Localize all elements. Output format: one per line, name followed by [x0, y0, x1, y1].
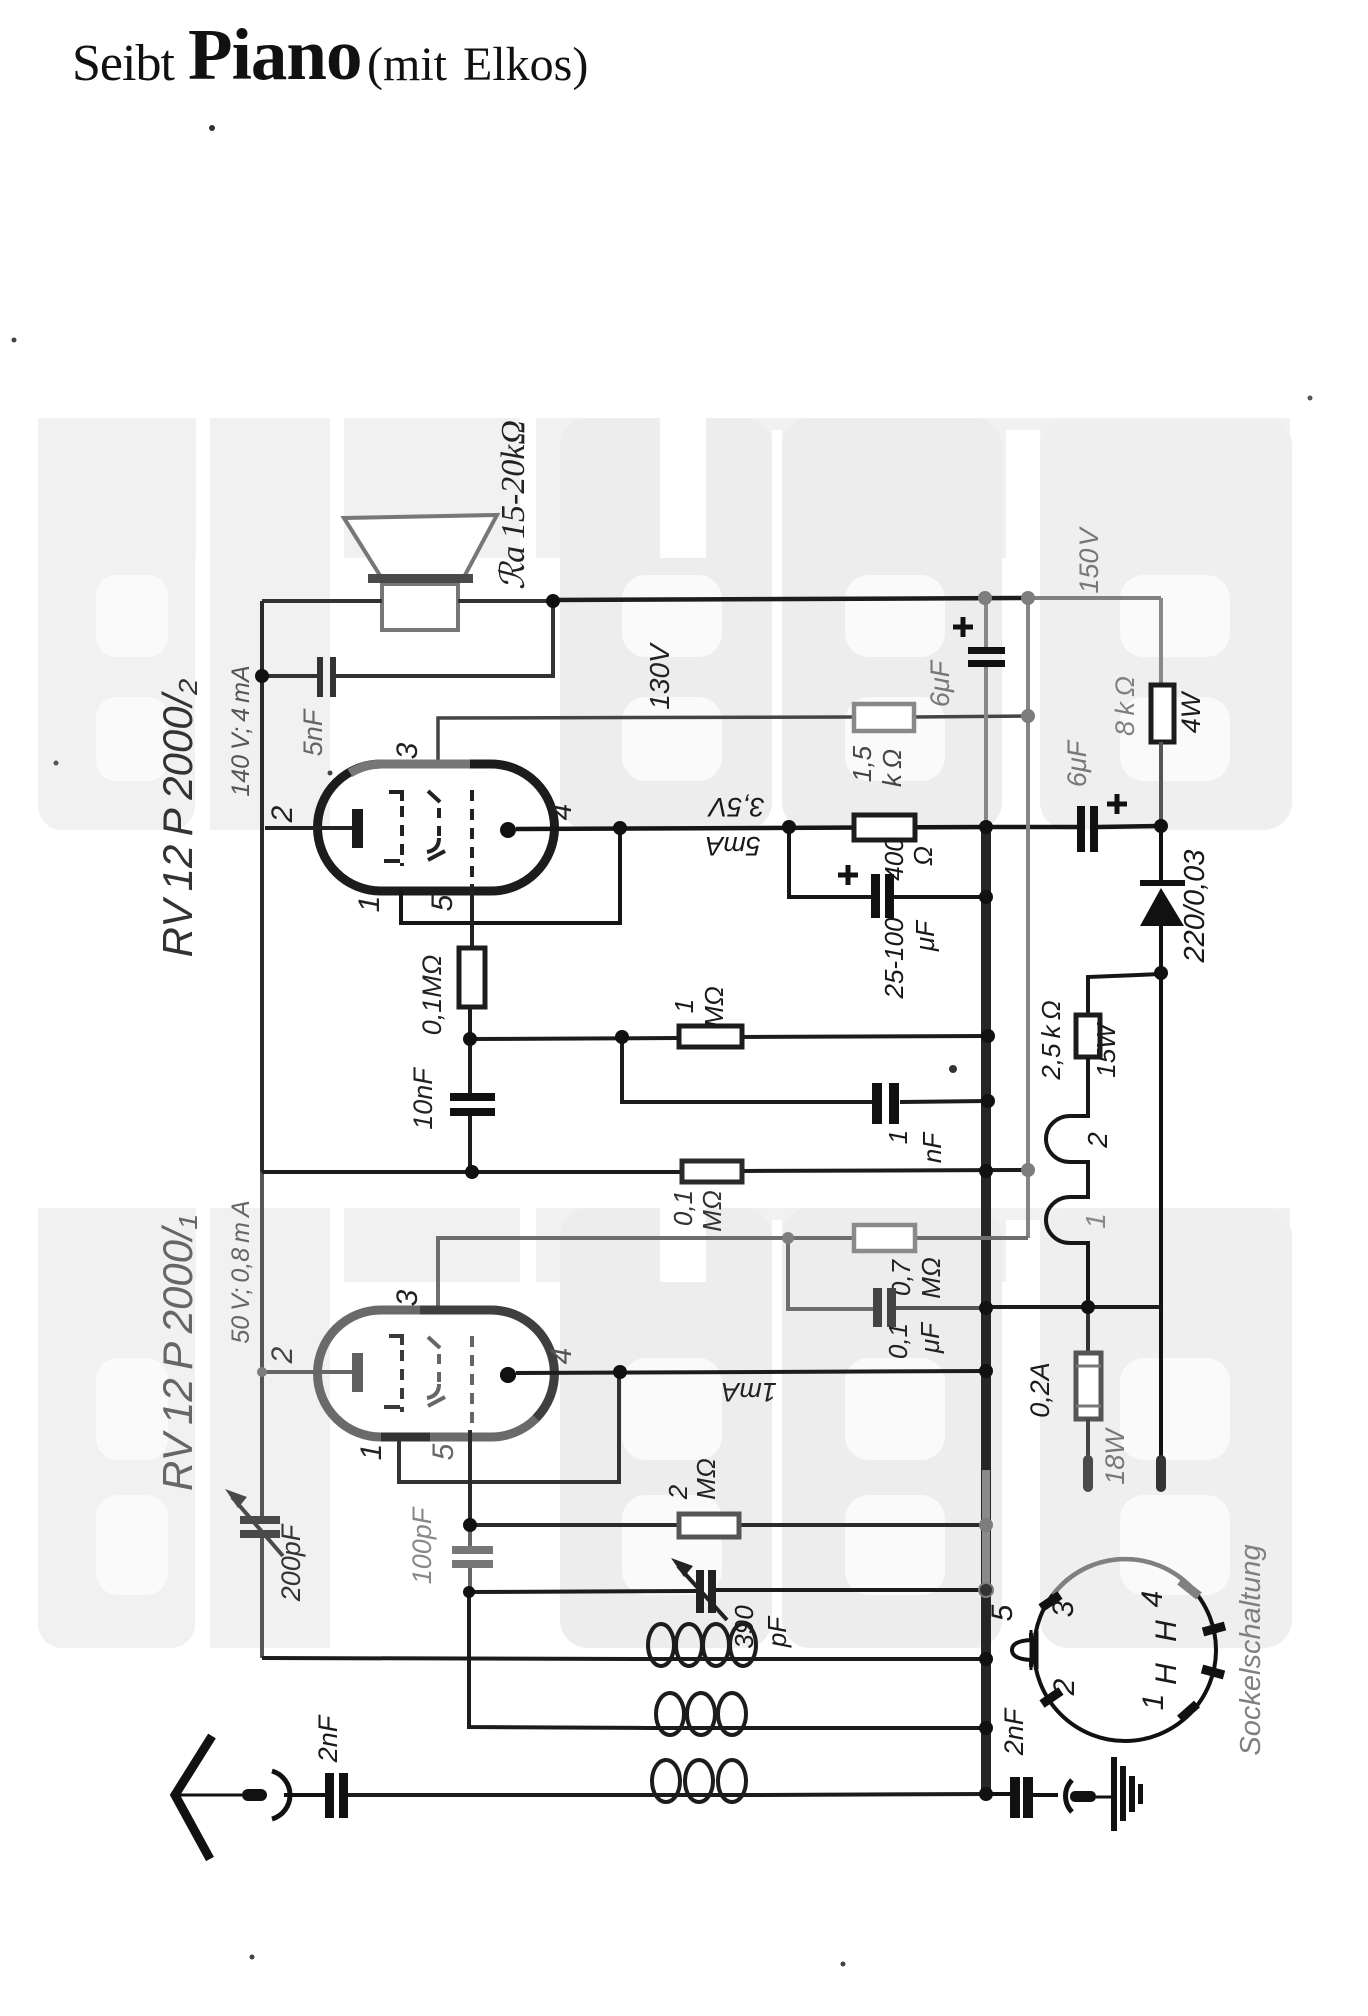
tube U1 grid3 / pin5: [470, 1336, 474, 1430]
svg-text:6μF: 6μF: [925, 659, 955, 707]
wire grid row tube2 pin3: [438, 717, 854, 762]
svg-text:8 k Ω: 8 k Ω: [1110, 676, 1140, 736]
diode 220/0,03: [1159, 826, 1163, 884]
wire anode row 3,5V: [516, 827, 986, 829]
tube U1 grid1: [389, 1336, 402, 1345]
svg-text:2: 2: [266, 1346, 299, 1364]
capacitor 200pF variable: [240, 1516, 280, 1524]
wire bus to 2nF ground: [986, 1792, 1011, 1796]
capacitor 0,1uF: [873, 1288, 882, 1327]
svg-text:5: 5: [986, 1604, 1019, 1621]
svg-text:MΩ: MΩ: [699, 986, 729, 1027]
svg-text:Sockelschaltung: Sockelschaltung: [1235, 1544, 1267, 1755]
fuse 0,2A: [1086, 1307, 1090, 1353]
tube U2 cathode: [265, 826, 352, 830]
svg-text:Piano: Piano: [188, 14, 361, 95]
wire pin1/pin5 loop tube U2: [401, 828, 620, 923]
svg-text:25-100: 25-100: [879, 917, 909, 999]
resistor 0,1MOhm (tube2 pin5): [459, 948, 485, 1007]
terminal 18W right: [1156, 1455, 1166, 1492]
svg-text:H: H: [1150, 1620, 1183, 1642]
svg-text:μF: μF: [910, 919, 940, 952]
svg-text:4: 4: [545, 1348, 578, 1365]
capacitor 390pF variable: [696, 1570, 704, 1613]
svg-text:3: 3: [391, 742, 424, 759]
svg-text:nF: nF: [917, 1131, 947, 1163]
socket Sockelschaltung: [1034, 1559, 1216, 1741]
svg-text:pF: pF: [762, 1615, 792, 1648]
svg-text:140 V; 4 mA: 140 V; 4 mA: [227, 665, 255, 796]
coil L1: [644, 1657, 757, 1661]
wire top output row: [262, 599, 382, 603]
watermark band 2: [38, 1205, 1292, 1648]
bus line B vertical gray: [1026, 598, 1030, 1238]
svg-text:MΩ: MΩ: [691, 1458, 721, 1499]
svg-text:k Ω: k Ω: [877, 749, 907, 787]
socket bell pin5: [1012, 1633, 1031, 1667]
svg-text:2: 2: [266, 805, 299, 823]
wire 1nF branch: [622, 1037, 873, 1102]
capacitor 1nF: [872, 1083, 882, 1124]
svg-text:50 V; 0,8 m A: 50 V; 0,8 m A: [227, 1200, 255, 1343]
svg-text:1: 1: [669, 999, 699, 1013]
speaker LS: [344, 515, 497, 630]
capacitor 25-100uF branch: [789, 827, 872, 897]
tube U2 grid1: [389, 792, 402, 801]
svg-text:3,5V: 3,5V: [706, 792, 765, 822]
wire coil rows left links: [262, 1658, 644, 1659]
svg-text:2nF: 2nF: [313, 1714, 343, 1763]
svg-text:RV 12 P 2000/₂: RV 12 P 2000/₂: [154, 679, 201, 958]
svg-text:MΩ: MΩ: [916, 1257, 946, 1298]
tube U1 cathode: [265, 1370, 352, 1374]
svg-text:18W: 18W: [1100, 1427, 1130, 1485]
wire grid row tube1 coupling: [262, 1170, 682, 1174]
svg-text:10nF: 10nF: [408, 1067, 438, 1130]
svg-text:Ω: Ω: [908, 846, 938, 866]
resistor 1,5kOhm: [854, 704, 914, 731]
svg-text:2,5 k Ω: 2,5 k Ω: [1036, 1000, 1066, 1080]
svg-text:15W: 15W: [1091, 1022, 1121, 1078]
wire 5nF branch: [336, 601, 553, 676]
svg-text:5: 5: [427, 1443, 460, 1460]
wire left column V1: [260, 601, 264, 1172]
coil L2: [648, 1726, 757, 1730]
capacitor 10nF: [468, 1039, 472, 1094]
coil L3 antenna: [644, 1793, 757, 1797]
capacitor 6uF right (anode row): [1077, 806, 1085, 852]
capacitor 100pF: [468, 1525, 472, 1547]
capacitor 2nF antenna: [325, 1773, 334, 1818]
svg-text:0,1: 0,1: [883, 1323, 913, 1359]
svg-text:μF: μF: [915, 1321, 945, 1354]
wire pin5 lead to 2M row: [470, 1430, 679, 1525]
svg-text:1: 1: [1137, 1694, 1170, 1711]
capacitor 2nF ground: [1010, 1777, 1020, 1818]
svg-text:3: 3: [1047, 1600, 1080, 1617]
inductor filament choke (2 loops): [1046, 1057, 1088, 1307]
wire 390pF row: [469, 1591, 697, 1592]
svg-text:0,1: 0,1: [668, 1190, 698, 1226]
wire right column 150V: [1159, 598, 1163, 685]
svg-text:RV 12 P 2000/₁: RV 12 P 2000/₁: [154, 1215, 201, 1491]
svg-text:H: H: [1150, 1663, 1183, 1685]
svg-text:4W: 4W: [1176, 690, 1206, 733]
tube U2 RV12P2000/2 envelope: [318, 764, 555, 891]
svg-text:4: 4: [545, 804, 578, 821]
svg-text:130V: 130V: [644, 642, 675, 710]
tube U1 anode dot pin4: [500, 1367, 516, 1383]
resistor 2MOhm: [679, 1514, 739, 1537]
capacitor 5nF: [317, 657, 323, 697]
svg-text:(mit Elkos): (mit Elkos): [367, 38, 588, 91]
wire grid coupling row (0,1M / 1M row): [470, 1007, 679, 1039]
svg-text:1: 1: [355, 1444, 388, 1461]
wire pin5 lead: [470, 884, 474, 948]
tube U2 grid3 / pin5: [470, 790, 474, 884]
antenna: [175, 1736, 212, 1859]
wire anode row tube1 1mA: [516, 1371, 986, 1373]
capacitor 6uF top (on bus A): [968, 647, 1005, 654]
svg-text:2nF: 2nF: [999, 1707, 1029, 1756]
svg-text:1: 1: [353, 896, 386, 913]
svg-text:0,2A: 0,2A: [1025, 1362, 1055, 1418]
svg-text:MΩ: MΩ: [697, 1190, 727, 1231]
tube U1 RV12P2000/1 envelope: [318, 1310, 555, 1437]
svg-text:2: 2: [1048, 1678, 1081, 1696]
ground: [1111, 1757, 1117, 1831]
svg-text:Seibt: Seibt: [72, 35, 175, 92]
svg-text:5: 5: [426, 894, 459, 911]
resistor 8kOhm 4W: [1151, 685, 1174, 742]
wire to 2,5k: [1088, 974, 1161, 1015]
resistor 2,5kOhm 15W: [1076, 1015, 1100, 1057]
resistor 400 Ohm: [854, 815, 915, 840]
wire gray grid row tube1 (0,7M row): [438, 1238, 854, 1310]
svg-text:2: 2: [1082, 1132, 1113, 1149]
junction dot bus/390pF row: [980, 1584, 992, 1596]
svg-text:3: 3: [391, 1289, 424, 1306]
svg-text:1: 1: [883, 1130, 913, 1144]
bus line A vertical (gray upper part): [984, 597, 988, 648]
svg-text:1,5: 1,5: [847, 745, 877, 782]
svg-text:220/0,03: 220/0,03: [1179, 850, 1211, 964]
resistor 0,1MOhm (coupling): [682, 1161, 742, 1182]
svg-text:5nF: 5nF: [298, 708, 328, 756]
svg-text:0,1MΩ: 0,1MΩ: [417, 955, 447, 1036]
svg-text:200pF: 200pF: [276, 1523, 306, 1602]
tube U1 grid2: [428, 1337, 440, 1348]
bus line A thick black: [981, 824, 991, 1794]
svg-text:4: 4: [1136, 1591, 1169, 1608]
resistor 1MOhm: [679, 1026, 742, 1047]
tube U2 anode dot pin4: [500, 822, 516, 838]
svg-text:150 V: 150 V: [1074, 525, 1104, 593]
scan specks: [209, 125, 215, 131]
watermark band 1: [38, 415, 1292, 830]
terminal 18W left: [1083, 1455, 1093, 1492]
svg-text:100pF: 100pF: [407, 1506, 437, 1584]
resistor 0,7MOhm: [854, 1225, 915, 1251]
svg-text:ℛa 15-20kΩ: ℛa 15-20kΩ: [495, 420, 532, 590]
wire pin1/pin5 loop tube U1: [399, 1372, 619, 1482]
svg-text:1mA: 1mA: [721, 1377, 777, 1407]
svg-text:5mA: 5mA: [705, 831, 761, 861]
wire 0,1uF branch gray: [788, 1238, 874, 1309]
svg-text:1: 1: [1080, 1213, 1111, 1229]
junction dots gray: [257, 591, 1035, 1598]
svg-text:2: 2: [663, 1484, 693, 1500]
tube U2 grid2: [428, 791, 440, 802]
svg-text:6μF: 6μF: [1062, 739, 1092, 787]
